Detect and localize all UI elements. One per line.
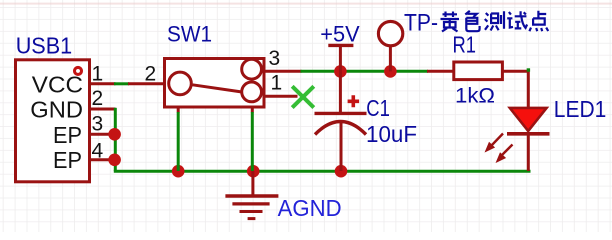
test point circle xyxy=(378,21,402,45)
test point label CJK 黄 xyxy=(441,12,460,32)
svg-text:LED1: LED1 xyxy=(554,96,607,122)
LED1 cathode bar xyxy=(507,132,550,136)
resistor R1 lead left xyxy=(427,70,454,73)
test point label CJK 试 xyxy=(507,11,527,28)
svg-text:10uF: 10uF xyxy=(366,121,417,147)
junction dot bottom left (SW1 left leg) xyxy=(172,165,185,178)
svg-text:3: 3 xyxy=(92,112,104,135)
svg-text:1kΩ: 1kΩ xyxy=(455,84,495,108)
SW1 bottom right contact circle xyxy=(242,82,262,102)
power port +5V lead xyxy=(339,46,342,71)
capacitor C1 bottom arc xyxy=(315,122,366,135)
component SW1 body xyxy=(165,59,265,108)
junction dot +5V / C1 tap xyxy=(334,65,347,78)
SW1 lever xyxy=(193,85,243,92)
junction dot bottom right (C1 leg) xyxy=(335,165,348,178)
junction dot pin4 xyxy=(108,154,121,167)
svg-text:GND: GND xyxy=(30,96,83,122)
svg-text:1: 1 xyxy=(92,63,104,86)
LED1 lead down to ground wire xyxy=(527,134,530,171)
bottom ground wire xyxy=(114,170,531,173)
capacitor C1 top plate xyxy=(315,112,367,115)
SW1 pin 3 stub xyxy=(264,70,302,73)
junction dot pin3 xyxy=(108,128,121,141)
svg-text:3: 3 xyxy=(269,47,281,70)
svg-text:1: 1 xyxy=(271,72,283,95)
SW1 left contact circle xyxy=(169,72,192,95)
resistor R1 lead right and corner down xyxy=(504,71,529,110)
capacitor C1 plus sign xyxy=(348,95,360,107)
SW1 pin 1 stub xyxy=(264,95,298,98)
LED1 emission arrow upper xyxy=(486,134,504,152)
svg-text:USB1: USB1 xyxy=(16,33,72,59)
power port +5V bar xyxy=(328,44,353,47)
AGND bar 2 xyxy=(232,202,269,205)
test point label CJK 点 xyxy=(529,11,548,31)
wire VCC to SW1 pin 2 xyxy=(114,82,129,85)
SW1 right leg wire down xyxy=(251,107,254,113)
test point lead xyxy=(389,47,392,72)
pin 4 stub of USB1 xyxy=(89,158,116,161)
svg-text:2: 2 xyxy=(92,87,104,110)
LED1 triangle xyxy=(510,108,547,131)
AGND bar 1 xyxy=(225,194,278,197)
svg-text:SW1: SW1 xyxy=(167,22,212,47)
svg-text:2: 2 xyxy=(145,62,157,85)
svg-text:R1: R1 xyxy=(453,32,477,58)
resistor R1 body xyxy=(454,62,503,80)
no-ERC cross on SW1 pin 1 xyxy=(292,86,314,107)
svg-text:AGND: AGND xyxy=(278,195,342,221)
AGND bar 4 xyxy=(248,217,256,220)
svg-text:+5V: +5V xyxy=(320,21,359,46)
svg-text:EP: EP xyxy=(53,122,82,148)
net stub green fleck at R1 corner xyxy=(527,68,530,71)
junction dot test point tap xyxy=(384,65,397,78)
pin 3 stub of USB1 xyxy=(89,133,116,136)
component USB1 body xyxy=(16,60,90,182)
SW1 pin 2 stub xyxy=(128,82,164,85)
capacitor C1 lead bottom xyxy=(340,122,343,171)
test point label CJK 色 xyxy=(465,11,479,31)
pin 1 stub of USB1 xyxy=(89,82,116,85)
AGND lead down xyxy=(251,171,254,195)
faint top window edge xyxy=(0,3,612,5)
pin-1 marker ring on VCC xyxy=(75,67,82,74)
svg-text:TP-: TP- xyxy=(404,10,438,37)
AGND bar 3 xyxy=(240,210,263,213)
svg-text:VCC: VCC xyxy=(32,71,83,97)
svg-text:C1: C1 xyxy=(366,95,390,121)
SW1 left leg wire down xyxy=(177,107,180,113)
LED1 emission arrow lower xyxy=(497,145,513,163)
junction dot bottom middle (SW1 right leg / AGND) xyxy=(247,165,260,178)
test point label CJK 测 xyxy=(485,11,504,30)
main wire SW1 pin3 to R1 xyxy=(301,70,429,73)
wire vertical from GND pin down xyxy=(114,108,117,171)
capacitor C1 lead top xyxy=(339,71,342,113)
pin 2 stub of USB1 xyxy=(89,108,116,111)
SW1 top right contact circle xyxy=(242,59,262,79)
svg-text:EP: EP xyxy=(53,147,82,173)
svg-text:4: 4 xyxy=(92,139,104,162)
